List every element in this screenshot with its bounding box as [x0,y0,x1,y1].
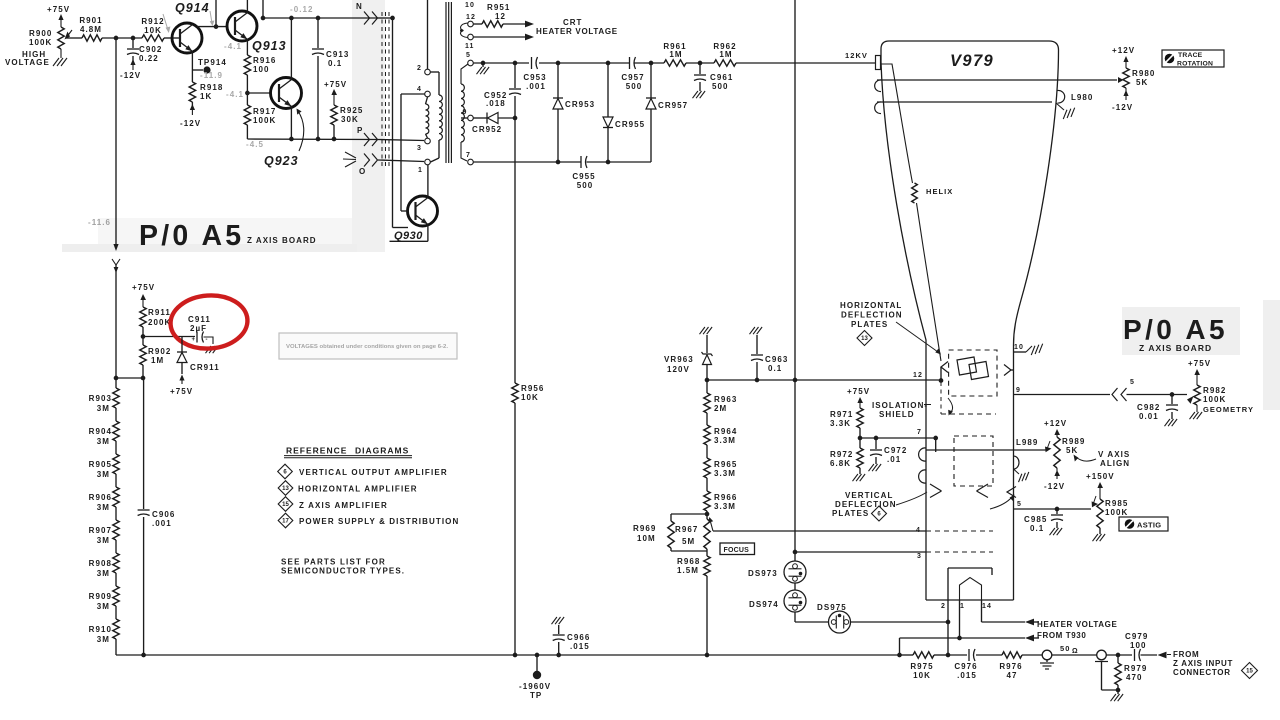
svg-text:R903: R903 [89,394,112,403]
svg-text:VERTICAL: VERTICAL [845,491,893,500]
zener diode VR963 120V [664,327,713,380]
red circle annotation [169,293,250,351]
svg-text:120V: 120V [667,365,690,374]
pin 12 wire [705,372,944,383]
svg-text:R911: R911 [148,308,171,317]
svg-text:DEFLECTION: DEFLECTION [841,311,903,320]
svg-text:R968: R968 [677,557,700,566]
svg-text:R900: R900 [29,29,52,38]
svg-text:0.1: 0.1 [328,59,342,68]
reference item power supply [278,513,459,528]
transformer core [446,2,451,163]
svg-text:3M: 3M [97,503,110,512]
wire long vertical to P/O A5 with -11.6 [88,38,120,378]
+75V above R971 [847,387,870,408]
svg-text:+12V: +12V [1112,46,1135,55]
svg-text:30K: 30K [341,115,359,124]
pin 4 dashed inside neck [916,527,993,534]
resistor R909 3M [89,573,120,611]
pin 5 wire [1014,501,1092,511]
svg-text:ASTIG: ASTIG [1137,521,1161,530]
svg-text:3M: 3M [97,437,110,446]
svg-text:C961: C961 [710,73,733,82]
resistor R916 100 [244,55,276,75]
svg-text:R963: R963 [714,395,737,404]
diode CR953 [553,63,595,162]
test point -1960V TP [519,655,551,700]
potentiometer R967 5M FOCUS [675,517,713,556]
gray annotation arrows near Q914 [163,11,214,33]
svg-text:C985: C985 [1024,515,1047,524]
resistor R903 3M [89,378,120,413]
svg-text:5: 5 [466,52,471,59]
svg-text:5K: 5K [1066,446,1078,455]
+12V above R980 [1112,46,1135,68]
svg-text:L989: L989 [1016,438,1038,447]
svg-text:P: P [357,126,363,135]
V AXIS ALIGN label with arrow [1074,450,1131,468]
svg-text:DS974: DS974 [749,600,779,609]
CRT V979 envelope [881,41,1059,600]
terminal 5 of HV winding [466,52,473,66]
pin 10 wire and ground [1014,344,1045,355]
svg-text:.001: .001 [526,82,546,91]
ASTIG box [1119,517,1168,531]
wire Q914 collector to Q913 base [192,0,227,29]
svg-text:3.3M: 3.3M [714,469,736,478]
svg-text:R964: R964 [714,427,737,436]
pin 7 wire [858,429,938,452]
svg-text:TP914: TP914 [198,58,227,67]
wire x795 top stub [794,0,796,380]
transformer secondary winding [461,64,468,161]
wire R901 to R912, node [102,36,142,41]
transformer terminal 1 [418,159,430,174]
svg-text:N: N [356,2,363,11]
top rail wire to N connector [261,0,378,20]
svg-text:R976: R976 [999,662,1022,671]
ISOLATION SHIELD label [872,401,931,419]
svg-text:PLATES: PLATES [832,509,869,518]
ground at terminal 5 [477,63,490,74]
svg-text:HEATER VOLTAGE: HEATER VOLTAGE [536,27,618,36]
svg-text:VOLTAGE: VOLTAGE [5,58,50,67]
CRT helix line [881,64,953,361]
resistor R976 47 [999,652,1042,680]
svg-text:12: 12 [466,14,476,21]
L989 coil bump right with ground [1014,438,1039,482]
svg-text:R902: R902 [148,347,171,356]
svg-text:3M: 3M [97,470,110,479]
resistor R925 30K [331,105,364,125]
capacitor C976 .015 series [948,649,1002,680]
+12V above R989 [1044,419,1067,437]
svg-text:500: 500 [712,82,729,91]
resistor R951 12 [474,3,535,27]
svg-text:P/0 A5: P/0 A5 [1123,314,1228,345]
neon lamp DS973 [748,552,806,583]
svg-text:TRACE: TRACE [1178,52,1203,59]
svg-text:50: 50 [1060,644,1070,653]
resistor R968 1.5M [677,556,710,576]
connector O with shield symbol [343,152,378,176]
svg-text:5M: 5M [682,537,695,546]
wire R967 wiper to pin 4 [713,530,926,532]
svg-text:+75V: +75V [132,283,155,292]
svg-text:DS975: DS975 [817,603,847,612]
svg-text:HORIZONTAL AMPLIFIER: HORIZONTAL AMPLIFIER [298,485,418,494]
svg-text:R956: R956 [521,384,544,393]
resistor R961 1M [663,42,686,66]
transistor Q913 [227,11,287,53]
-1960V bus wire [116,653,900,658]
svg-text:C957: C957 [621,73,644,82]
svg-text:10K: 10K [913,671,931,680]
wire R916 to R917 node [245,75,250,105]
resistor R905 3M [89,441,120,479]
vertical plate chevrons [930,484,1016,498]
svg-text:R907: R907 [89,526,112,535]
pin 9 wire [1014,387,1111,395]
svg-text:R905: R905 [89,460,112,469]
svg-text:R985: R985 [1105,499,1128,508]
pin 3 wire [793,550,993,560]
gray -4.5 [246,140,264,149]
svg-text:11: 11 [465,43,475,50]
svg-text:CR957: CR957 [658,101,688,110]
svg-text:1M: 1M [669,50,682,59]
wire R917 to bottom rail [246,125,248,139]
svg-text:VERTICAL OUTPUT AMPLIFIER: VERTICAL OUTPUT AMPLIFIER [299,468,448,477]
reference item vertical output amplifier [278,464,448,479]
SEE PARTS LIST note [281,558,405,576]
svg-text:10M: 10M [637,534,656,543]
svg-text:VR963: VR963 [664,355,694,364]
svg-text:R965: R965 [714,460,737,469]
svg-text:CR955: CR955 [615,120,645,129]
wire R910 to bus [115,639,117,655]
potentiometer R900 HIGH VOLTAGE [5,27,72,67]
svg-text:.001: .001 [152,519,172,528]
svg-text:R904: R904 [89,427,112,436]
capacitor C979 100 series [1125,632,1148,661]
svg-text:100K: 100K [29,38,52,47]
svg-text:FROM T930: FROM T930 [1037,631,1086,640]
svg-text:SHIELD: SHIELD [879,410,915,419]
svg-text:Q930: Q930 [394,230,423,242]
VOLTAGES note box [279,333,457,359]
connector P [357,126,378,146]
vertical deflection plates dashed box [954,436,993,486]
svg-text:R975: R975 [910,662,933,671]
svg-text:-12V: -12V [1112,103,1133,112]
svg-text:TP: TP [530,691,542,700]
svg-text:+75V: +75V [170,387,193,396]
svg-text:Z AXIS INPUT: Z AXIS INPUT [1173,659,1233,668]
L989 coil bumps left [919,448,926,483]
svg-text:4.8M: 4.8M [80,25,102,34]
svg-text:DIAGRAMS: DIAGRAMS [355,446,409,456]
svg-text:3M: 3M [97,569,110,578]
resistor R902 1M [140,345,172,365]
svg-text:4: 4 [916,527,921,534]
svg-text:+75V: +75V [324,80,347,89]
HEATER VOLTAGE FROM T930 label [1034,620,1117,640]
svg-text:FOCUS: FOCUS [724,547,750,554]
svg-text:200K: 200K [148,318,171,327]
svg-text:+75V: +75V [47,5,70,14]
svg-text:-12V: -12V [120,71,141,80]
TRACE ROTATION box [1162,50,1224,68]
svg-text:+75V: +75V [1188,359,1211,368]
wire between coax connectors [1052,654,1097,656]
svg-text:.018: .018 [486,99,506,108]
wire R968 to bottom bus [705,576,710,657]
wire R971 to node [859,428,861,438]
horizontal deflection plates [957,357,989,380]
svg-text:14: 14 [982,603,992,610]
svg-text:R906: R906 [89,493,112,502]
horizontal deflection plates dashed box [949,350,997,396]
capacitor C953 .001 series [523,57,546,91]
wire DS975 to CRT pin 2 [851,620,951,625]
svg-text:3M: 3M [97,536,110,545]
svg-text:100K: 100K [1203,395,1226,404]
svg-text:3M: 3M [97,635,110,644]
diode CR957 [646,63,688,162]
CRT HEATER VOLTAGE label [536,18,618,36]
svg-text:9: 9 [463,109,468,116]
svg-text:10K: 10K [521,393,539,402]
ground below L980 [1056,103,1077,119]
svg-text:500: 500 [577,181,594,190]
ground below R900 [53,49,67,66]
wire L989 to R989 wiper [926,441,1052,452]
neon lamp DS975 [817,603,851,633]
capacitor C961 500 to ground [693,63,734,98]
svg-text:0.01: 0.01 [1139,412,1159,421]
resistor R918 1K [189,70,223,102]
resistor R906 3M [89,474,120,512]
svg-text:0.22: 0.22 [139,54,159,63]
-12V below R989 [1044,468,1065,491]
svg-text:17: 17 [282,519,289,525]
resistor R966 3.3M [704,478,738,511]
transformer terminal 3 [417,138,430,152]
wire R912 to Q914 base [164,37,180,39]
wire R956 to bus [514,403,516,655]
bottom rail wire to P connector [247,137,378,142]
capacitor C902 0.22 [120,38,162,80]
svg-text:POWER SUPPLY & DISTRIBUTION: POWER SUPPLY & DISTRIBUTION [299,517,459,526]
capacitor C952 .018 [484,63,521,118]
wire tap 11 to heater arrow [474,34,535,41]
HORIZONTAL DEFLECTION PLATES label [840,301,941,355]
+75V above R911 [132,283,155,307]
svg-text:ALIGN: ALIGN [1100,459,1130,468]
ground below R985 [1093,528,1106,541]
svg-text:C972: C972 [884,446,907,455]
svg-text:V979: V979 [950,52,994,70]
coax connector right [1095,650,1118,690]
resistor R956 10K [512,383,545,403]
pin 14 wire to heater arrow [982,600,1035,625]
svg-text:Q914: Q914 [175,1,210,15]
svg-text:CONNECTOR: CONNECTOR [1173,668,1231,677]
P/O A5 right label [1123,314,1228,353]
svg-text:-11.9: -11.9 [200,71,223,80]
pin 2 wire to bus [946,568,951,657]
svg-text:SEE PARTS LIST FOR: SEE PARTS LIST FOR [281,558,386,567]
wire Q923 collector up to top rail [290,18,292,80]
+150V above R985 [1086,472,1115,499]
wire R902 to ladder node [114,365,146,380]
svg-text:500: 500 [626,82,643,91]
svg-text:1: 1 [960,603,965,610]
wire coax to C979 [1106,653,1132,658]
svg-text:Z AXIS AMPLIFIER: Z AXIS AMPLIFIER [299,501,388,510]
-12V below R980 [1112,88,1133,112]
svg-text:R917: R917 [253,107,276,116]
svg-text:-12V: -12V [180,119,201,128]
svg-text:CR953: CR953 [565,100,595,109]
svg-text:REFERENCE: REFERENCE [286,446,347,456]
svg-text:2µF: 2µF [190,324,207,333]
svg-text:R916: R916 [253,56,276,65]
svg-text:O: O [359,167,366,176]
svg-text:DEFLECTION: DEFLECTION [835,500,897,509]
svg-text:P/0 A5: P/0 A5 [139,220,244,252]
svg-text:7: 7 [466,152,471,159]
capacitor C957 500 series [621,57,644,91]
+75V supply top-left [47,5,70,27]
capacitor C972 .01 [869,438,908,471]
potentiometer R982 100K GEOMETRY [1187,385,1254,414]
ground after C911 [206,346,219,353]
svg-text:3.3M: 3.3M [714,502,736,511]
resistor R901 4.8M [79,16,102,41]
resistor R962 1M [713,42,736,66]
reference item horizontal amplifier [278,481,418,496]
svg-text:.015: .015 [957,671,977,680]
svg-text:2M: 2M [714,404,727,413]
resistor R911 200K [140,307,172,327]
svg-text:R979: R979 [1124,664,1147,673]
svg-text:10K: 10K [144,26,162,35]
svg-text:-4.1: -4.1 [224,42,242,51]
capacitor C966 .015 [552,617,591,655]
capacitor C913 0.1 [312,18,349,139]
svg-text:Z AXIS BOARD: Z AXIS BOARD [1139,343,1212,353]
connector N [356,2,378,25]
svg-text:0.1: 0.1 [768,364,782,373]
capacitor C963 0.1 [750,327,789,380]
svg-text:3.3M: 3.3M [714,436,736,445]
svg-text:V AXIS: V AXIS [1098,450,1130,459]
svg-text:1M: 1M [719,50,732,59]
svg-text:.015: .015 [570,642,590,651]
wire chevron to geometry pot [1127,392,1188,397]
svg-text:-11.6: -11.6 [88,218,111,227]
+75V above R982 [1188,359,1211,385]
svg-text:-: - [206,337,208,343]
svg-text:VOLTAGES obtained under condit: VOLTAGES obtained under conditions given… [286,344,448,350]
svg-text:R969: R969 [633,524,656,533]
svg-text:+: + [192,337,196,343]
svg-text:2: 2 [941,603,946,610]
svg-text:C979: C979 [1125,632,1148,641]
svg-text:5: 5 [1017,501,1022,508]
wire P to transformer terminal 3 [378,140,424,141]
svg-text:SEMICONDUCTOR TYPES.: SEMICONDUCTOR TYPES. [281,567,405,576]
+75V below CR911 [170,375,193,397]
svg-text:HELIX: HELIX [926,187,953,196]
svg-text:C911: C911 [188,315,211,324]
wire R962 to CRT 12KV terminal [736,51,876,63]
svg-text:C902: C902 [139,45,162,54]
resistor R912 10K [141,17,164,41]
pin labels 2 1 14 [941,603,992,610]
plate chevron left [941,362,948,381]
svg-text:HEATER VOLTAGE: HEATER VOLTAGE [1037,620,1117,629]
capacitor C906 .001 [138,378,176,655]
svg-text:13: 13 [861,336,868,342]
svg-text:C953: C953 [523,73,546,82]
wire Q930 collector to terminal 1 [427,165,429,198]
svg-text:R982: R982 [1203,386,1226,395]
diode CR955 [603,63,645,162]
wire Q913 collector stub [246,0,248,13]
svg-text:C966: C966 [567,633,590,642]
svg-text:2: 2 [417,65,422,72]
svg-text:47: 47 [1007,671,1018,680]
svg-text:CR952: CR952 [472,125,502,134]
isolation shield dashed [941,382,996,416]
svg-text:1M: 1M [151,356,164,365]
svg-text:R909: R909 [89,592,112,601]
svg-text:100K: 100K [253,116,276,125]
heater return wire to bus [897,635,1034,658]
svg-text:ISOLATION-: ISOLATION- [872,401,928,410]
wire Q923 emitter down to bottom rail [290,106,292,139]
svg-text:1.5M: 1.5M [677,566,699,575]
svg-text:C963: C963 [765,355,788,364]
svg-text:R966: R966 [714,493,737,502]
transformer terminal 4 [417,86,430,97]
resistor R963 2M [704,380,738,413]
svg-text:Q913: Q913 [252,39,287,53]
svg-text:R980: R980 [1132,69,1155,78]
svg-text:CRT: CRT [563,18,582,27]
resistor R965 3.3M [704,445,738,478]
svg-text:+75V: +75V [847,387,870,396]
wire node to Q923 base [247,92,271,94]
50 ohm label [1060,644,1079,655]
cable dashed lines [382,12,389,168]
transformer T930 terminal 2 [417,0,430,75]
svg-text:R967: R967 [675,525,698,534]
svg-text:100K: 100K [1105,508,1128,517]
gray -4.1 upper [224,42,242,51]
svg-text:Z AXIS BOARD: Z AXIS BOARD [247,236,317,245]
capacitor C985 0.1 [1024,509,1063,535]
wire R925 to bottom rail [333,125,335,139]
svg-text:Ω: Ω [1072,648,1079,655]
svg-text:R972: R972 [830,450,853,459]
transistor Q923 [264,78,302,169]
svg-text:CR911: CR911 [190,363,220,372]
svg-text:9: 9 [1016,387,1021,394]
